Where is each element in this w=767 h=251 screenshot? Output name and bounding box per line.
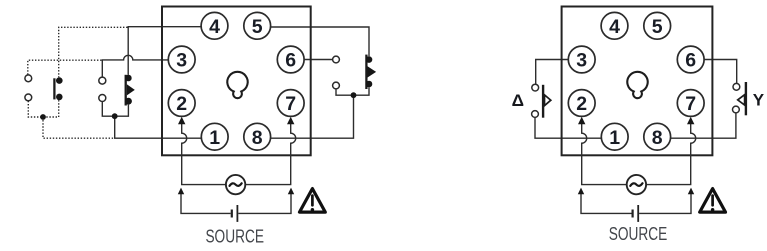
delta switch bar bbox=[542, 85, 544, 118]
svg-text:4: 4 bbox=[609, 16, 620, 38]
wire pin 3 to terminal T2a bbox=[102, 55, 168, 77]
pin 6 bbox=[677, 46, 704, 73]
switch S2 bar bbox=[125, 75, 127, 106]
svg-text:5: 5 bbox=[652, 16, 663, 38]
switch S2 contact top bbox=[125, 75, 132, 82]
junction S2 common bbox=[112, 113, 118, 119]
wire dotted S1 common to pin1 wire bbox=[43, 117, 114, 138]
switch S1 contact bottom bbox=[56, 94, 63, 101]
pin 6 bbox=[277, 46, 304, 73]
wire pin 6 to terminal T3a bbox=[304, 59, 333, 61]
terminal Y bottom bbox=[733, 106, 740, 113]
battery bbox=[232, 205, 238, 222]
wire Y to pin 8 bbox=[671, 113, 736, 138]
wire delta to pin 1 bbox=[535, 117, 601, 138]
delta switch actuator bbox=[545, 95, 551, 106]
pin 5 bbox=[644, 12, 671, 39]
svg-text:8: 8 bbox=[652, 127, 663, 149]
terminal T1b bbox=[25, 94, 32, 101]
svg-text:Δ: Δ bbox=[512, 91, 524, 110]
junction S3 common bbox=[351, 92, 357, 98]
wire dotted S1 top bbox=[59, 27, 128, 77]
warning triangle bbox=[300, 189, 326, 213]
pin 7 bbox=[677, 90, 704, 117]
pin 3 bbox=[168, 46, 195, 73]
svg-text:1: 1 bbox=[609, 127, 620, 149]
svg-text:8: 8 bbox=[252, 127, 263, 149]
junction S1 common bbox=[40, 114, 46, 120]
svg-text:3: 3 bbox=[576, 50, 587, 72]
wire source to pin 7 bbox=[245, 117, 295, 185]
wire pin 4 to switch S2 bbox=[128, 27, 201, 75]
ac source bbox=[627, 175, 646, 194]
svg-text:2: 2 bbox=[576, 93, 587, 115]
svg-text:7: 7 bbox=[285, 93, 296, 115]
switch S3 contact top bbox=[366, 56, 373, 63]
wire battery rail right bbox=[238, 188, 294, 214]
wire pin 6 to Y switch bbox=[704, 60, 737, 84]
battery bbox=[633, 205, 639, 222]
switch S2 actuator bbox=[127, 84, 135, 95]
terminal T2b bbox=[99, 95, 106, 102]
socket body right bbox=[562, 7, 713, 156]
wire source to pin 2 bbox=[578, 117, 627, 185]
svg-text:3: 3 bbox=[176, 50, 187, 72]
ac source bbox=[226, 175, 245, 194]
svg-text:7: 7 bbox=[685, 93, 696, 115]
pin 1 bbox=[201, 123, 228, 150]
pin 4 bbox=[201, 12, 228, 39]
terminal delta bottom bbox=[532, 111, 539, 118]
wire source to pin 7 bbox=[646, 117, 696, 185]
switch S2 contact bottom bbox=[125, 98, 132, 105]
svg-text:2: 2 bbox=[176, 93, 187, 115]
wire pin 3 to delta switch bbox=[536, 60, 569, 85]
terminal T2a bbox=[99, 77, 106, 84]
terminal T1a bbox=[25, 75, 32, 82]
pin 2 bbox=[568, 90, 595, 117]
wire S2 lower assembly bbox=[102, 102, 128, 117]
warning triangle bbox=[700, 189, 726, 213]
Y switch actuator bbox=[738, 95, 745, 105]
terminal delta top bbox=[532, 84, 539, 91]
pin 8 bbox=[244, 123, 271, 150]
svg-text:4: 4 bbox=[209, 16, 220, 38]
wire S3 lower assembly bbox=[336, 87, 369, 95]
switch S3 contact bottom bbox=[366, 81, 373, 88]
pin 2 bbox=[168, 90, 195, 117]
keyway bbox=[227, 72, 247, 98]
Y switch bar bbox=[745, 82, 747, 115]
switch S1 bar bbox=[53, 78, 55, 99]
wire source to pin 2 bbox=[178, 117, 226, 185]
keyway bbox=[627, 72, 647, 98]
wire battery rail left bbox=[178, 188, 231, 214]
switch S3 bar bbox=[365, 55, 367, 89]
socket body left bbox=[162, 7, 311, 156]
svg-text:6: 6 bbox=[285, 50, 296, 72]
svg-text:SOURCE: SOURCE bbox=[609, 223, 668, 244]
svg-text:5: 5 bbox=[252, 16, 263, 38]
svg-text:6: 6 bbox=[685, 50, 696, 72]
wire battery rail right bbox=[639, 188, 694, 214]
terminal T3a bbox=[333, 56, 340, 63]
pin 5 bbox=[244, 12, 271, 39]
wire pin 8 to switch S3 common bbox=[271, 95, 354, 138]
wire pin 5 to switch S3 bbox=[271, 27, 369, 56]
svg-text:Y: Y bbox=[753, 91, 765, 110]
pin 8 bbox=[644, 123, 671, 150]
pin 7 bbox=[277, 90, 304, 117]
pin 1 bbox=[601, 123, 628, 150]
switch S1 contact top bbox=[56, 77, 63, 84]
pin 3 bbox=[568, 46, 595, 73]
wire dotted S1 lower bbox=[28, 100, 58, 117]
wire dotted to terminal T1a bbox=[28, 60, 102, 75]
switch S3 actuator bbox=[368, 66, 377, 77]
terminal Y top bbox=[733, 83, 740, 90]
terminal T3b bbox=[333, 82, 340, 89]
pin 4 bbox=[601, 12, 628, 39]
svg-text:SOURCE: SOURCE bbox=[205, 226, 264, 247]
wire battery rail left bbox=[578, 188, 632, 214]
svg-text:1: 1 bbox=[209, 127, 220, 149]
wire switch S2 common to pin 1 bbox=[115, 116, 202, 138]
